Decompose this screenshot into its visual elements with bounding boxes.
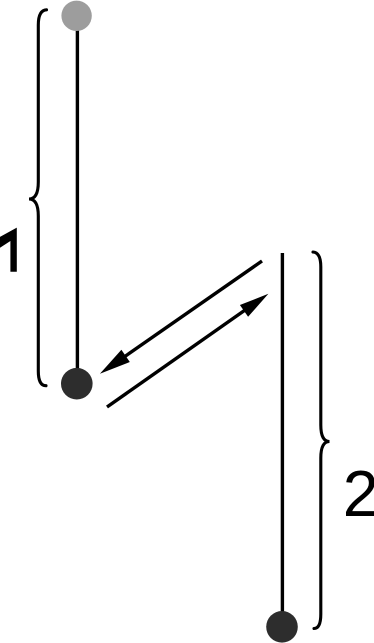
- svg-text:2: 2: [343, 458, 374, 530]
